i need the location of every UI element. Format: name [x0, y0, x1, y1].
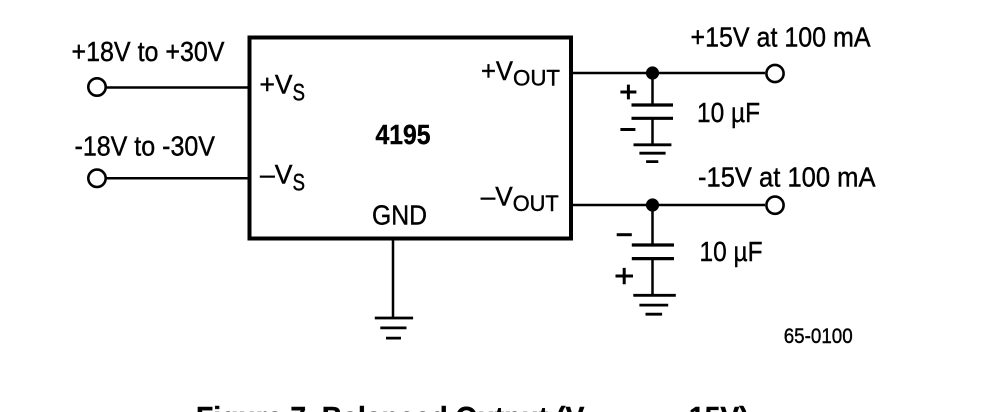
ground G2: [633, 295, 676, 314]
node junction 2: [646, 198, 659, 211]
wire input 1: [105, 86, 251, 89]
ground G1: [634, 145, 672, 162]
svg-text:Figure 7. Balanced Output (VOU: Figure 7. Balanced Output (VOUT = ±15V): [196, 401, 749, 412]
polarity - of C1: [620, 128, 635, 131]
polarity + of C1: [620, 85, 636, 100]
svg-text:-15V at 100 mA: -15V at 100 mA: [698, 162, 876, 193]
node junction 1: [646, 66, 659, 79]
capacitor C1: [632, 105, 674, 118]
svg-text:+15V at 100 mA: +15V at 100 mA: [691, 22, 872, 53]
ground G3: [375, 318, 413, 338]
wire junction2 to C2: [651, 205, 654, 245]
svg-text:GND: GND: [372, 200, 427, 231]
terminal output 1: [766, 65, 783, 82]
wire output -VOUT: [569, 204, 765, 207]
svg-text:65-0100: 65-0100: [784, 325, 853, 348]
svg-text:10 µF: 10 µF: [700, 236, 763, 267]
polarity - of C2: [617, 233, 632, 236]
wire C2 to ground: [651, 259, 654, 297]
wire input 2: [105, 177, 251, 180]
svg-text:4195: 4195: [376, 119, 431, 150]
svg-text:-18V to -30V: -18V to -30V: [75, 131, 216, 162]
terminal input 2: [88, 170, 105, 187]
svg-text:+18V to +30V: +18V to +30V: [72, 36, 226, 67]
wire C1 to ground: [651, 118, 654, 146]
IC U1 regulator box 4195: [250, 38, 572, 239]
capacitor C2: [632, 245, 674, 259]
terminal input 1: [88, 78, 105, 95]
terminal output 2: [766, 197, 783, 214]
wire GND pin to ground: [392, 240, 395, 319]
wire junction1 to C1: [651, 73, 654, 105]
svg-text:10 µF: 10 µF: [697, 97, 760, 128]
polarity + of C2: [616, 268, 634, 284]
wire output +VOUT: [569, 72, 765, 75]
